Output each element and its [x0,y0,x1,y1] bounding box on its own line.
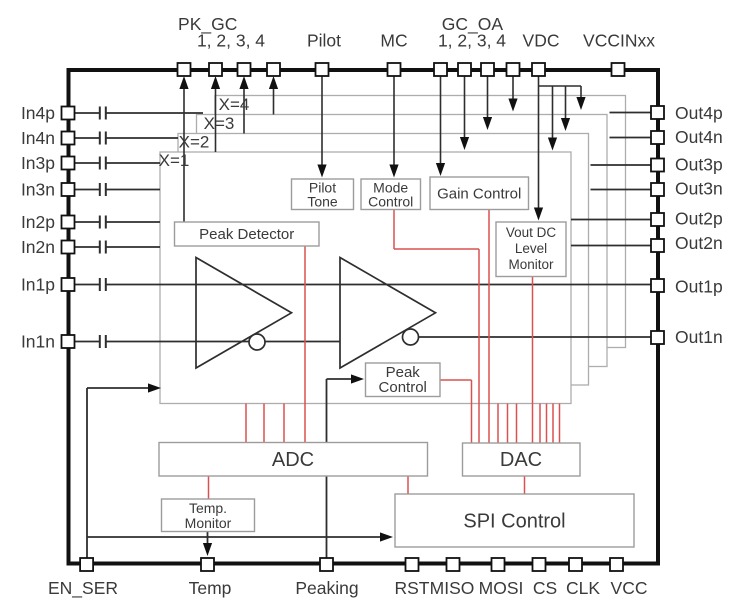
svg-text:1, 2, 3, 4: 1, 2, 3, 4 [197,31,265,51]
svg-text:In2n: In2n [21,237,55,257]
svg-text:EN_SER: EN_SER [48,578,118,599]
svg-text:Gain Control: Gain Control [437,186,521,203]
svg-text:VCCINxx: VCCINxx [583,31,655,51]
svg-text:Temp.: Temp. [189,500,227,516]
svg-text:DAC: DAC [500,449,542,471]
svg-text:SPI Control: SPI Control [463,511,565,533]
svg-text:MISO: MISO [430,578,475,598]
svg-text:In3n: In3n [21,180,55,200]
svg-text:X=4: X=4 [219,95,250,114]
svg-text:Out2n: Out2n [675,233,723,253]
svg-text:In4n: In4n [21,128,55,148]
svg-text:Level: Level [515,241,547,256]
svg-text:In1n: In1n [21,332,55,352]
svg-text:Peak Detector: Peak Detector [199,226,294,243]
svg-text:CLK: CLK [566,578,600,598]
svg-text:Out2p: Out2p [675,208,723,228]
svg-text:Pilot: Pilot [307,31,341,51]
svg-text:X=3: X=3 [204,114,235,133]
svg-text:Tone: Tone [307,194,338,210]
svg-text:MC: MC [380,31,407,51]
svg-text:CS: CS [533,578,557,598]
svg-text:Out3p: Out3p [675,155,723,175]
svg-text:Out4n: Out4n [675,127,723,147]
svg-text:MOSI: MOSI [479,578,524,598]
svg-text:X=2: X=2 [179,133,210,152]
svg-text:Peaking: Peaking [295,578,358,598]
svg-text:Control: Control [379,379,427,396]
svg-text:X=1: X=1 [159,151,190,170]
svg-text:Monitor: Monitor [508,257,554,272]
svg-text:ADC: ADC [272,449,314,471]
svg-text:In3p: In3p [21,153,55,173]
svg-text:Out1n: Out1n [675,327,723,347]
svg-text:1, 2, 3, 4: 1, 2, 3, 4 [438,31,506,51]
svg-text:Out3n: Out3n [675,179,723,199]
svg-text:Monitor: Monitor [185,515,232,531]
svg-text:Out4p: Out4p [675,103,723,123]
svg-text:In1p: In1p [21,275,55,295]
svg-text:In2p: In2p [21,212,55,232]
svg-text:Vout DC: Vout DC [506,225,557,240]
svg-text:In4p: In4p [21,103,55,123]
svg-text:VDC: VDC [523,31,560,51]
svg-text:Out1p: Out1p [675,277,723,297]
svg-text:Temp: Temp [189,578,232,598]
svg-text:RST: RST [395,578,430,598]
svg-text:VCC: VCC [611,578,648,598]
svg-text:Control: Control [368,194,413,210]
